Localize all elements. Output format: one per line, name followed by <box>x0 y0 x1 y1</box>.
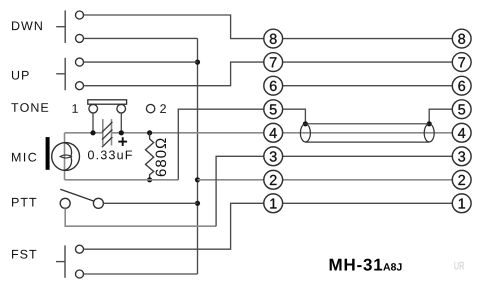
switch FST stub <box>56 261 65 263</box>
capacitor C1 plus sign <box>118 137 127 146</box>
junction rail/resistor-top <box>147 130 152 135</box>
wire pins4 link <box>283 132 453 134</box>
wire pin5-right to shield <box>429 109 452 124</box>
pin L3 <box>264 147 283 166</box>
label DWN <box>12 22 42 31</box>
wire pins8 link <box>283 38 453 40</box>
PTT contact right <box>93 198 103 208</box>
switch UP stub <box>56 73 65 75</box>
wire pins3 link <box>283 155 453 157</box>
bottom rail mic-minus <box>65 179 179 181</box>
capacitor C1 hatch 3 <box>102 137 112 147</box>
tone contact B <box>117 104 126 113</box>
label tone position 1 <box>72 104 77 113</box>
junction bus/UP-top <box>195 60 200 65</box>
resistor R1 zigzag <box>146 133 154 180</box>
switch DWN stub <box>56 26 65 28</box>
label 0.33uF <box>88 150 132 159</box>
switch FST bar <box>64 245 66 277</box>
pin L1 <box>264 194 283 213</box>
shield tube top <box>305 123 429 125</box>
mic element bottom arc <box>64 157 71 171</box>
label PTT <box>12 198 36 207</box>
junction rail/tone-A <box>90 130 95 135</box>
label tone position 2 <box>160 104 166 113</box>
ground bus vertical <box>197 38 199 274</box>
pin R7 <box>452 53 471 72</box>
wire FST-bottom to bus <box>84 273 198 275</box>
title MH-31 <box>330 259 383 271</box>
shield tube bottom <box>305 141 429 143</box>
pin R2 <box>452 170 471 189</box>
pin R5 <box>452 100 471 119</box>
pin L8 <box>264 29 283 48</box>
label 680ohm <box>156 138 167 176</box>
shield ferrule left <box>300 124 310 142</box>
junction bus/pin2 wire <box>195 177 200 182</box>
mic element top arc <box>64 143 71 157</box>
wire UP-bottom to pin7 <box>84 62 264 86</box>
pin L6 <box>264 76 283 95</box>
wire DWN-top to pin8 <box>84 15 264 39</box>
wire pin5 riser <box>178 109 263 180</box>
pin R4 <box>452 123 471 142</box>
junction rail/resistor-bottom <box>147 177 152 182</box>
junction shield right <box>427 121 432 126</box>
switch UP bar <box>64 58 66 90</box>
PTT lever <box>60 189 94 201</box>
junction rail/tone-B <box>119 130 124 135</box>
top rail capacitor to pin4 <box>112 132 264 134</box>
wire UP-top to bus <box>84 61 198 63</box>
wire pins6 link <box>283 85 453 87</box>
switch FST contact bottom <box>76 270 84 278</box>
wire pin5-left to shield <box>283 109 306 124</box>
label MIC <box>12 153 36 162</box>
wire FST-top to pin1 <box>84 203 264 249</box>
mic element circle <box>52 143 80 171</box>
wire tone B down <box>120 113 122 133</box>
switch UP contact bottom <box>76 82 84 90</box>
top rail mic+ to capacitor <box>65 132 103 134</box>
junction bus/PTT wire <box>195 201 200 206</box>
wire pins1 link <box>283 202 453 204</box>
pin R8 <box>452 29 471 48</box>
title suffix A8J <box>383 263 401 270</box>
capacitor C1 hatch 2 <box>102 130 112 140</box>
mic element lens <box>60 155 71 158</box>
mic thick bar <box>46 137 50 170</box>
wire DWN-bottom to ground bus <box>84 37 198 39</box>
switch DWN contact bottom <box>76 34 84 42</box>
capacitor C1 hatch 1 <box>102 122 112 132</box>
tone spare contact position 2 <box>146 104 154 112</box>
switch DWN contact top <box>76 11 84 19</box>
switch UP contact top <box>76 58 84 66</box>
switch DWN bar <box>64 10 66 43</box>
switch FST contact top <box>76 245 84 253</box>
tone slider bar <box>88 100 127 104</box>
PTT contact left <box>60 198 70 208</box>
pin R3 <box>452 147 471 166</box>
wire tone A down <box>92 113 94 133</box>
label FST <box>12 250 36 259</box>
mic left edge wire <box>64 133 66 180</box>
junction shield left <box>303 121 308 126</box>
watermark UR <box>454 262 464 270</box>
label TONE <box>11 103 48 112</box>
shield ferrule right <box>424 124 434 142</box>
capacitor C1 plate left <box>102 119 104 145</box>
wire PTT-right to bus <box>104 202 198 204</box>
wire PTT riser to pin3 <box>216 156 264 226</box>
capacitor C1 plate right <box>111 119 113 145</box>
wire pins2 link <box>283 179 453 181</box>
wire pins7 link <box>283 61 453 63</box>
pin L4 <box>264 123 283 142</box>
pin L5 <box>264 100 283 119</box>
pin L2 <box>264 170 283 189</box>
pin R6 <box>452 76 471 95</box>
pin R1 <box>452 194 471 213</box>
label UP <box>12 71 29 80</box>
wire bus to pin2 <box>198 179 264 181</box>
tone contact A <box>89 104 98 113</box>
pin L7 <box>264 53 283 72</box>
wire PTT-left down-across <box>65 208 216 226</box>
